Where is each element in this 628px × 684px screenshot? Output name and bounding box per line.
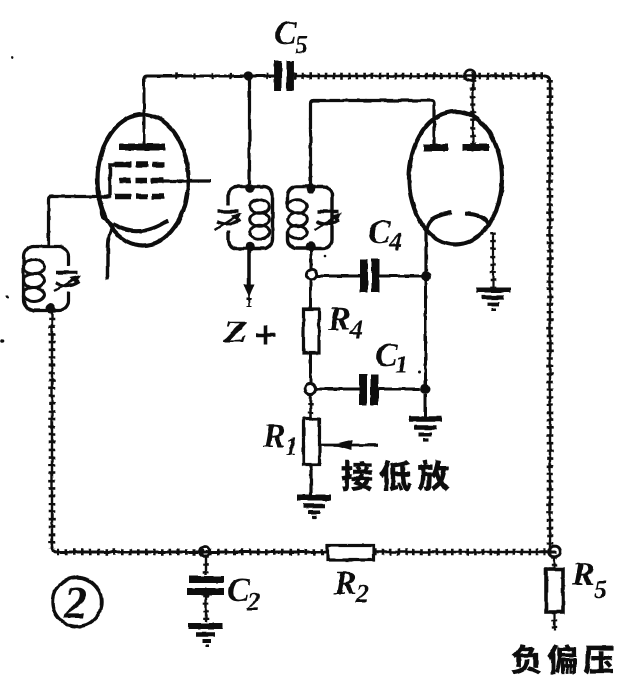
V1 screen grid lead exiting right bbox=[162, 179, 211, 182]
wire R1 to ground bbox=[309, 465, 312, 496]
wire node to C1 bbox=[316, 388, 359, 391]
capacitor C4 bbox=[360, 259, 368, 292]
V1 cathode squiggle bbox=[98, 199, 113, 226]
node L2 bottom bbox=[245, 242, 255, 252]
label 接低放 (to AF amplifier) bbox=[342, 460, 373, 491]
wire top rail down to tank L2 bbox=[248, 76, 251, 188]
capacitor C2 bbox=[205, 556, 207, 575]
V1 grid row 3 bbox=[115, 194, 131, 200]
arrow tap into R1 (to AF stage) bbox=[321, 444, 378, 447]
wire C1 to ground node bbox=[379, 388, 421, 391]
L3 coil loops bbox=[288, 200, 308, 214]
V1 anode plate bbox=[119, 144, 165, 151]
label C4 bbox=[369, 220, 391, 243]
node C2 junction bbox=[200, 547, 210, 557]
wire left rail bbox=[51, 312, 53, 549]
label C2 bbox=[228, 578, 250, 601]
V1 grid row 1 bbox=[115, 162, 131, 168]
node L2 top bbox=[245, 184, 255, 194]
label C1 bbox=[376, 343, 398, 366]
L2 trimmer capacitor bbox=[218, 210, 240, 213]
label R2 bbox=[334, 572, 355, 594]
V1 grid row 2 (screen) bbox=[119, 178, 131, 184]
V1 grid connector bar bbox=[100, 165, 116, 197]
node L3 bottom bbox=[306, 242, 316, 252]
arrow to Z+ supply bbox=[244, 284, 255, 298]
capacitor C5 bbox=[274, 61, 282, 91]
ground below C2 bbox=[188, 623, 223, 629]
V1 anode lead (up from plate) bbox=[143, 112, 146, 147]
figure number 2 (circled) bbox=[53, 578, 102, 627]
node top rail / L2 tap junction bbox=[244, 71, 253, 80]
node bottom-right junction bbox=[549, 546, 560, 557]
wire junction to R4 bbox=[309, 279, 312, 310]
ground below V2 bbox=[476, 288, 511, 293]
wire bottom rail bbox=[52, 547, 326, 552]
node top rail / V2 anode junction bbox=[465, 70, 475, 80]
resistor R1 bbox=[304, 419, 320, 465]
wire L3 top to V2 anode bbox=[311, 101, 435, 189]
IF tank L3 outline bbox=[288, 187, 333, 249]
wire junction to C4 bbox=[317, 275, 360, 278]
V2 left cathode lead down bbox=[424, 230, 427, 272]
V2 cathode arc left bbox=[427, 213, 452, 230]
wire L3 bottom to junction bbox=[310, 249, 313, 270]
node C1 / ground junction bbox=[420, 384, 430, 394]
label R4 bbox=[328, 308, 349, 330]
label R5 bbox=[572, 563, 593, 585]
V1 cathode arc bbox=[113, 221, 168, 232]
ground below C1 bbox=[424, 394, 427, 417]
node junction below L3 bbox=[306, 269, 316, 279]
wire cathode node down to C1 node bbox=[424, 279, 427, 386]
wire V1 grid to antenna coil bbox=[49, 197, 101, 247]
wire R4 to node bbox=[309, 353, 312, 384]
speck marks (scan noise) bbox=[5, 295, 8, 298]
capacitor C1 bbox=[359, 374, 367, 405]
vacuum tube V1 envelope bbox=[98, 115, 189, 246]
label 负偏压 (negative bias) bbox=[512, 644, 541, 674]
ground below R1 bbox=[297, 495, 331, 501]
node C4 / V2 cathode junction bbox=[421, 271, 431, 281]
IF tank L2 outline bbox=[228, 187, 273, 249]
resistor R2 bbox=[328, 546, 374, 561]
node R4 / R1 / C1 junction bbox=[305, 384, 316, 395]
L3 trimmer capacitor bbox=[317, 210, 339, 213]
label Z+ (B plus supply) bbox=[223, 322, 247, 342]
V2 cathode arc right bbox=[465, 214, 490, 226]
wire L2 to Z+ arrow bbox=[247, 249, 251, 288]
V1 cathode lead (dangling) bbox=[107, 225, 113, 280]
L1 coil loops bbox=[24, 260, 45, 274]
V2 right anode lead (beaded) bbox=[472, 80, 474, 144]
L2 coil loops bbox=[250, 200, 270, 214]
resistor R4 bbox=[304, 310, 320, 354]
resistor R5 bbox=[553, 557, 555, 569]
wire top rail left segment bbox=[144, 76, 277, 150]
wire right rail bbox=[544, 76, 550, 82]
label R1 bbox=[263, 425, 284, 447]
V2 right anode plate bbox=[463, 144, 490, 151]
label C5 bbox=[275, 21, 297, 44]
V2 right cathode lead (beaded) bbox=[492, 232, 494, 288]
wire C4 to cathode node bbox=[380, 275, 423, 278]
node L1 bottom junction bbox=[46, 303, 56, 313]
L1 trimmer capacitor bbox=[56, 271, 78, 274]
wire top rail beaded segment bbox=[294, 75, 545, 77]
node L3 top bbox=[306, 184, 316, 194]
vacuum tube V2 envelope bbox=[409, 112, 502, 245]
antenna coil L1 tank outline bbox=[24, 247, 69, 311]
V2 left anode plate bbox=[424, 144, 449, 151]
wire node to R1 bbox=[309, 394, 312, 419]
